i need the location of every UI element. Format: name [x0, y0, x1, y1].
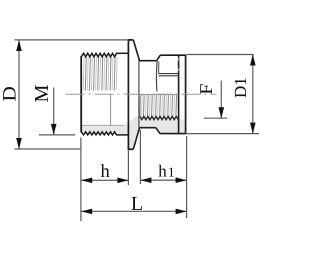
h arrow left: [81, 178, 92, 184]
svg-text:h: h: [100, 162, 109, 182]
hex to collar chamfer top: [157, 55, 161, 61]
dimension D1 arrow down: [250, 123, 256, 134]
h1 left extension line: [139, 130, 141, 184]
upper chamfer flange to hex: [133, 40, 139, 61]
dimension L line: [81, 210, 186, 212]
male thread crest zigzag top: [81, 53, 118, 57]
dimension F extension line: [204, 117, 227, 119]
internal bore line upper: [159, 73, 179, 75]
male thread crest zigzag bottom: [81, 132, 118, 135]
bore chamfer arc inside ring: [177, 58, 178, 71]
dimension D bottom extension line: [15, 148, 82, 150]
dimension D arrow up: [16, 40, 22, 51]
hex to collar chamfer bottom: [156, 128, 160, 134]
dimension D1 line: [252, 55, 254, 134]
female thread band top boundary at axis: [139, 94, 179, 96]
dimension M arrowhead: [51, 124, 57, 135]
right end face edge: [185, 55, 187, 135]
thread runout inner line: [110, 94, 112, 125]
hex bottom flat: [139, 127, 156, 129]
thread runout line bottom: [118, 134, 128, 136]
dimension F arrow line: [220, 81, 222, 119]
female thread flank shading lines: [140, 95, 177, 117]
dimension M extension line: [39, 134, 75, 136]
dimension D line: [18, 40, 20, 149]
end face ring inner edge: [178, 55, 180, 133]
female thread crest zigzag: [140, 116, 178, 119]
L arrow right: [176, 209, 187, 215]
svg-text:L: L: [131, 193, 143, 215]
svg-text:D1: D1: [231, 77, 250, 98]
lower chamfer flange to hex: [133, 128, 139, 150]
bottom shadow gray fill of fitting body: [81, 116, 185, 150]
svg-text:h1: h1: [158, 162, 174, 181]
male end face (left edge): [80, 56, 82, 132]
dimension D1 top extension line: [187, 54, 254, 56]
dimension D1 bottom extension line: [187, 133, 259, 135]
dimension D arrow down: [16, 138, 22, 149]
flange left face: [127, 39, 129, 150]
dimension D top extension line: [15, 39, 129, 41]
dimension h line: [81, 179, 128, 181]
L arrow left: [81, 209, 92, 215]
dimension M arrow line: [53, 88, 55, 135]
h right extension line: [127, 151, 129, 186]
socket mouth second edge: [158, 61, 160, 73]
dimension D1 arrow up: [250, 55, 256, 66]
internal bore line lower: [159, 75, 179, 77]
h1 arrow left: [140, 177, 151, 183]
svg-text:M: M: [30, 85, 52, 103]
hex top flat: [139, 60, 157, 62]
collar bottom edge: [160, 133, 186, 135]
h1/L right extension line: [186, 136, 188, 218]
thread runout line top: [118, 52, 128, 54]
shadow band top boundary line: [81, 124, 124, 126]
centerline axis: [66, 93, 217, 95]
collar top edge: [160, 54, 185, 56]
h arrow right: [117, 178, 128, 184]
flange top edge: [128, 39, 134, 41]
socket mouth inner curve: [155, 61, 158, 92]
hex front face edge: [138, 61, 140, 128]
dimension F arrowhead: [219, 107, 225, 118]
male thread flank shading lines: [85, 57, 115, 91]
flange bottom edge: [128, 148, 134, 150]
dimension h1 line: [140, 179, 186, 181]
h left extension line: [80, 138, 82, 222]
h1 arrow right: [176, 177, 187, 183]
svg-text:F: F: [196, 84, 216, 95]
svg-text:D: D: [0, 86, 20, 101]
